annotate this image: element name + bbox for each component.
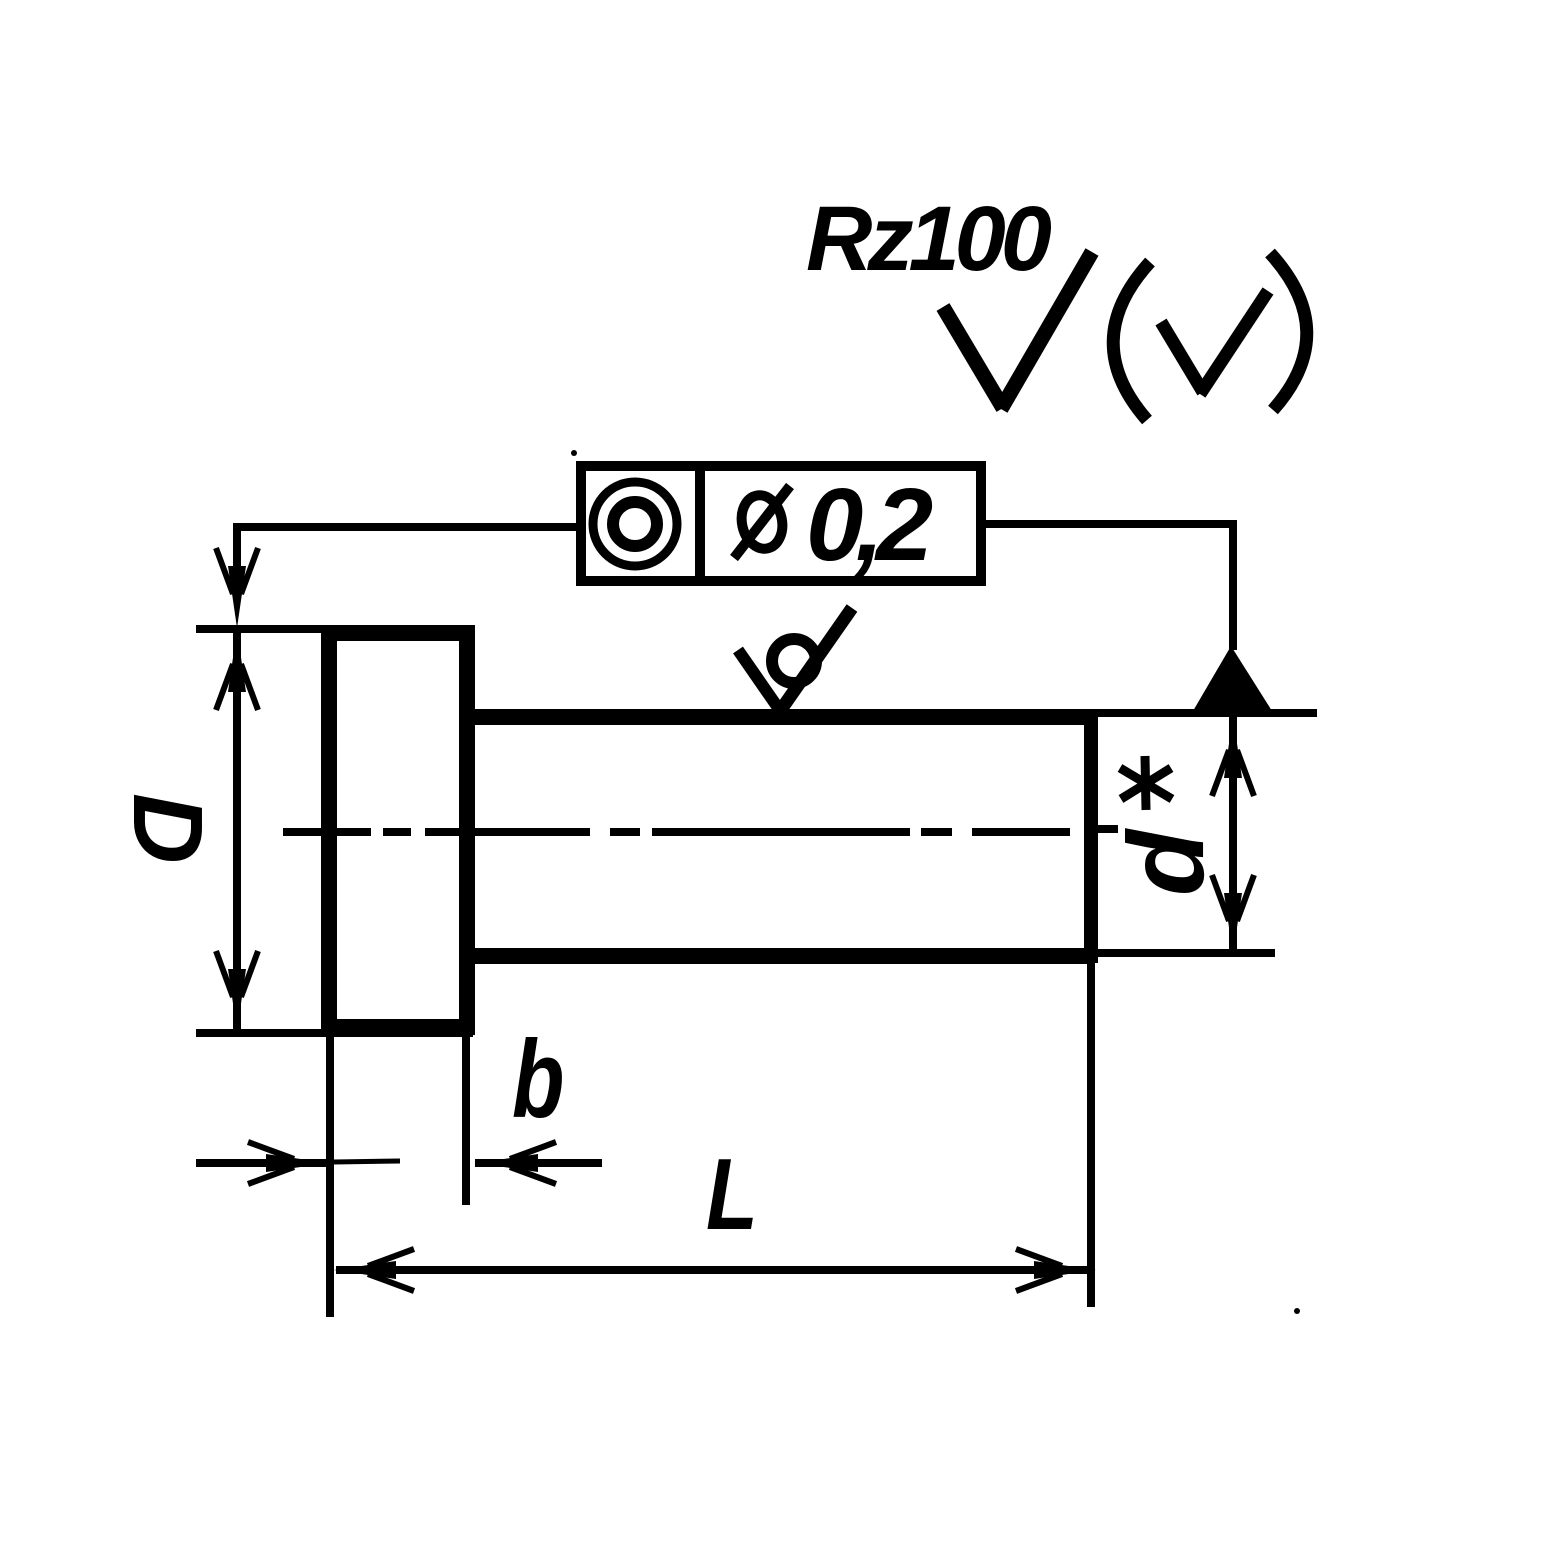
big check mark (surface symbol) — [943, 252, 1092, 409]
asterisk — [1120, 756, 1172, 810]
centerline (dash-dot axis) — [283, 829, 1118, 832]
speck near bottom right — [1294, 1308, 1300, 1314]
arrow d top (pointing up) — [1212, 716, 1254, 796]
extension line below shaft right edge — [1087, 963, 1095, 1307]
dimension line d — [1229, 716, 1237, 955]
svg-text:D: D — [113, 793, 223, 864]
extension line right of shaft bottom — [1095, 949, 1275, 957]
arrow b right (pointing left) — [476, 1142, 556, 1184]
concentricity symbol — [593, 482, 677, 566]
tolerance frame leader right — [986, 524, 1233, 650]
svg-text:0,2: 0,2 — [806, 467, 933, 582]
arrow leader down onto top extension line — [216, 548, 258, 628]
arrow b left (pointing right) — [248, 1142, 328, 1184]
diameter sign of tolerance value — [737, 491, 787, 552]
dimension line b right segment — [475, 1159, 602, 1167]
tolerance frame leader left — [237, 527, 576, 600]
small check mark — [1161, 291, 1268, 394]
shaft top edge — [467, 709, 1095, 725]
dimension line b left segment — [196, 1159, 326, 1167]
arrowheads — [216, 548, 1272, 1291]
arrow D top (pointing up) — [216, 630, 258, 710]
head outline (large diameter D) — [329, 633, 467, 1027]
extension line below head right edge — [462, 1035, 470, 1205]
shaft right edge — [1084, 709, 1098, 963]
roughness symbol on shaft (with circle) — [738, 608, 852, 714]
dimension line b stub right of extension — [334, 1161, 400, 1162]
tolerance frame — [581, 461, 981, 586]
arrow L right (pointing right) — [1016, 1249, 1096, 1291]
datum triangle (filled) — [1193, 646, 1272, 711]
arrow D bottom (pointing down) — [216, 951, 258, 1031]
parenthesis right — [1270, 253, 1307, 410]
dimension line L — [336, 1266, 1094, 1274]
arrow d bottom (pointing down) — [1212, 875, 1254, 955]
extension line bottom of head — [196, 1029, 473, 1037]
shaft bottom edge — [467, 948, 1095, 964]
svg-text:Rz100: Rz100 — [806, 188, 1052, 290]
svg-text:d: d — [1105, 828, 1226, 896]
parenthesis left — [1113, 262, 1150, 420]
dimension line D — [233, 629, 241, 1031]
extension line top of head — [196, 625, 473, 633]
svg-text:b: b — [512, 1018, 564, 1141]
speck above frame corner — [571, 450, 577, 456]
extension line right of shaft top — [1095, 709, 1317, 717]
svg-text:L: L — [706, 1138, 758, 1251]
arrow L left (pointing left) — [334, 1249, 414, 1291]
extension line below head left edge — [326, 1035, 334, 1317]
